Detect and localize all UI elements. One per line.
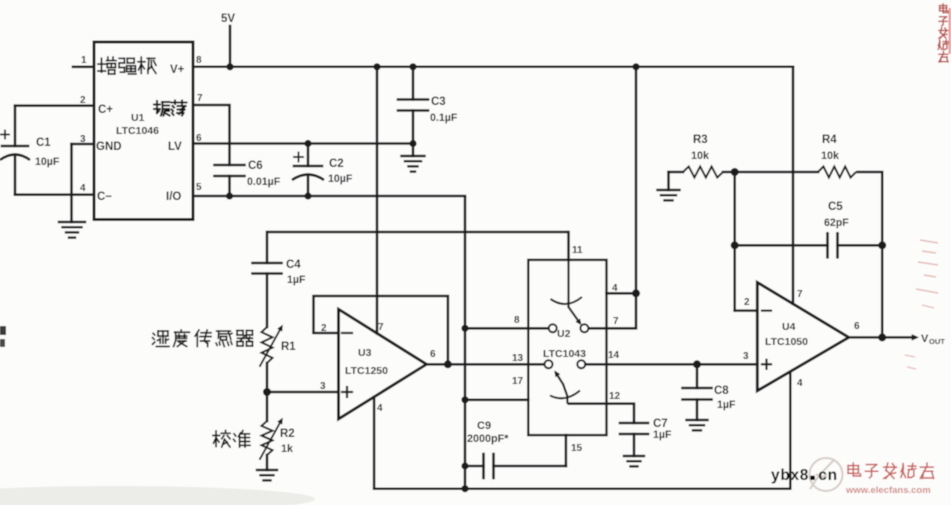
svg-text:4: 4 xyxy=(80,183,86,194)
wire R2 to ground xyxy=(266,455,269,470)
U4 plus sign xyxy=(762,363,771,365)
wire C8 top lead xyxy=(696,364,699,388)
wire C3 top lead xyxy=(412,67,415,100)
svg-text:10k: 10k xyxy=(821,150,840,162)
node R1/R2/U3+ junction xyxy=(263,388,271,396)
svg-text:LV: LV xyxy=(168,141,182,153)
svg-text:C4: C4 xyxy=(286,259,301,271)
capacitor C7 (1uF) xyxy=(620,422,648,425)
wire R3 gnd drop xyxy=(667,172,670,190)
resistor R2 (1k) xyxy=(262,421,273,455)
wire U3 pin3 row xyxy=(267,391,339,394)
wire U1 pin4 to C1 net xyxy=(15,193,94,196)
ground C8 xyxy=(687,419,708,421)
node C8 tap xyxy=(693,360,701,368)
svg-text:ybx8: ybx8 xyxy=(771,467,809,484)
capacitor C9 (2000pF) xyxy=(482,454,485,478)
wire U2 pin14 row to U4 xyxy=(585,363,757,366)
svg-text:7: 7 xyxy=(378,322,384,333)
wire R1 to node xyxy=(266,363,269,392)
wire U1 pin7 OSC stub xyxy=(193,105,230,144)
op-amp U3 triangle xyxy=(339,309,427,419)
svg-text:1µF: 1µF xyxy=(287,274,306,286)
svg-text:7: 7 xyxy=(197,93,203,104)
wire 5V drop xyxy=(229,26,232,67)
wire pin11 drop xyxy=(567,232,570,260)
wire C1 bottom lead xyxy=(14,157,17,195)
wire R3-R4 link xyxy=(723,171,818,174)
capacitor C5 (62pF) xyxy=(826,233,829,257)
svg-text:R4: R4 xyxy=(822,134,837,146)
op-amp U4 triangle xyxy=(757,282,849,390)
node U4 output/feedback junction xyxy=(878,333,886,341)
U1 label 增强极 xyxy=(98,57,116,74)
ground U1 pin3 xyxy=(59,221,85,223)
svg-text:R2: R2 xyxy=(280,428,295,440)
R1 arrow xyxy=(260,327,282,366)
node R3/R4 junction xyxy=(731,168,739,176)
svg-text:62pF: 62pF xyxy=(824,217,849,229)
svg-text:OUT: OUT xyxy=(929,337,945,346)
svg-text:V+: V+ xyxy=(170,64,185,76)
svg-text:LTC1250: LTC1250 xyxy=(345,365,388,377)
wire U4 pin2 stub xyxy=(735,309,758,312)
wire C6 bottom lead xyxy=(228,176,231,196)
node U2 pin4/7 junction xyxy=(632,289,640,297)
svg-text:10k: 10k xyxy=(691,150,710,162)
wire R3 ground riser xyxy=(669,171,684,174)
watermark top-right red column xyxy=(940,4,948,13)
C2 plus sign xyxy=(294,156,303,158)
U4 minus sign xyxy=(762,310,771,312)
svg-text:11: 11 xyxy=(572,245,583,256)
svg-text:14: 14 xyxy=(608,350,620,361)
U2 lower switch arm xyxy=(563,384,568,404)
wire C8 ground lead xyxy=(696,400,699,421)
wire U2 pin4 stub xyxy=(607,292,637,295)
resistor R1 (humidity sensor) xyxy=(262,327,273,363)
ground C7 xyxy=(624,455,644,457)
wire U2 pin12 row xyxy=(568,404,635,422)
U2 upper switch arm xyxy=(567,260,569,307)
node U2 V+ rail junction xyxy=(632,63,639,70)
wire U1 pin2 to C1 net xyxy=(15,104,94,107)
svg-text:0.01µF: 0.01µF xyxy=(247,176,281,188)
svg-text:7: 7 xyxy=(613,316,619,327)
svg-text:C5: C5 xyxy=(828,201,843,213)
capacitor C3 (0.1uF) xyxy=(398,98,428,101)
wire C2 bottom lead xyxy=(307,177,310,196)
U2 lower switch arc xyxy=(550,391,580,399)
wire I/O to switch column xyxy=(464,196,467,489)
svg-text:8: 8 xyxy=(514,315,520,326)
svg-text:6: 6 xyxy=(854,321,860,332)
ground C3 xyxy=(402,155,425,157)
wire bottom rail xyxy=(374,371,790,488)
svg-text:www.elecfans.com: www.elecfans.com xyxy=(845,485,931,496)
svg-text:C−: C− xyxy=(97,191,112,203)
capacitor C8 (1uF) xyxy=(683,387,712,390)
wire C5 left lead xyxy=(735,244,828,247)
svg-text:2000pF*: 2000pF* xyxy=(467,433,509,445)
wire U1 GND drop xyxy=(70,144,73,222)
node C6/I-O junction xyxy=(226,192,233,199)
svg-text:10µF: 10µF xyxy=(35,156,60,168)
R2 arrow xyxy=(260,420,282,459)
wire U4 output xyxy=(849,336,915,339)
node pin17 tap xyxy=(461,396,468,403)
wire C1 top lead xyxy=(14,106,17,146)
wire U1 pin5 I/O row xyxy=(193,195,465,198)
svg-text:C6: C6 xyxy=(248,160,263,172)
scan smudge bottom-left xyxy=(0,486,315,505)
svg-text:1µF: 1µF xyxy=(653,429,672,441)
svg-text:C1: C1 xyxy=(36,137,51,149)
svg-text:15: 15 xyxy=(571,443,583,454)
IC U2 LTC1043 box xyxy=(528,260,606,435)
svg-text:7: 7 xyxy=(797,289,803,300)
svg-text:C8: C8 xyxy=(714,385,729,397)
svg-text:R1: R1 xyxy=(281,341,296,353)
svg-text:6: 6 xyxy=(430,349,436,360)
node 5V junction xyxy=(226,63,233,70)
wire C7 ground lead xyxy=(633,434,636,456)
watermark top-right partial column xyxy=(949,8,951,54)
svg-text:V: V xyxy=(921,333,929,345)
svg-text:4: 4 xyxy=(612,283,618,294)
wire U1 pin3 GND stub xyxy=(72,143,95,146)
svg-text:12: 12 xyxy=(609,391,621,402)
node C5 left junction xyxy=(731,241,739,249)
svg-text:U1: U1 xyxy=(131,112,145,124)
watermark mid-right faint marks xyxy=(905,240,938,369)
svg-text:0.1µF: 0.1µF xyxy=(430,112,458,124)
node C5 right junction xyxy=(878,241,886,249)
svg-text:U3: U3 xyxy=(358,347,372,359)
node C2 bottom junction xyxy=(304,192,311,199)
wire C7 top lead xyxy=(633,422,636,423)
svg-text:4: 4 xyxy=(797,378,803,389)
U2 pin 13 contact xyxy=(545,360,553,368)
node C2 top junction xyxy=(304,140,311,147)
wire U1 pin1 stub xyxy=(73,66,94,69)
svg-text:5: 5 xyxy=(196,182,202,193)
svg-text:I/O: I/O xyxy=(166,191,181,203)
U2 pin 7 contact xyxy=(580,324,588,332)
wire C6 top lead xyxy=(228,144,231,166)
svg-text:U4: U4 xyxy=(782,321,796,333)
svg-text:U2: U2 xyxy=(557,328,571,340)
svg-text:10µF: 10µF xyxy=(328,173,353,185)
svg-text:LTC1043: LTC1043 xyxy=(543,348,586,360)
svg-text:1: 1 xyxy=(81,55,87,66)
wire V+ rail xyxy=(193,66,793,69)
svg-text:C9: C9 xyxy=(477,420,491,432)
svg-text:R3: R3 xyxy=(693,134,708,146)
svg-text:LTC1046: LTC1046 xyxy=(116,125,159,137)
wire C4-pin11 link xyxy=(267,231,569,234)
wire U3 pin4 drop xyxy=(373,397,376,489)
capacitor C6 (0.01uF) xyxy=(215,164,245,167)
wire feedback left drop xyxy=(733,172,736,311)
wire C4 top lead xyxy=(266,232,269,263)
wire C4 to R1 xyxy=(266,274,269,328)
svg-text:3: 3 xyxy=(320,381,326,392)
svg-text:2: 2 xyxy=(80,95,86,106)
svg-text:4: 4 xyxy=(377,403,383,414)
wire U2 pin17 row xyxy=(465,399,528,402)
svg-text:C2: C2 xyxy=(329,158,344,170)
svg-text:1µF: 1µF xyxy=(717,399,736,411)
U4 output arrowhead xyxy=(912,334,919,341)
svg-text:C3: C3 xyxy=(431,96,446,108)
svg-text:GND: GND xyxy=(96,141,122,153)
U3 plus sign xyxy=(342,391,352,393)
wire C5 right lead xyxy=(838,244,883,247)
wire C9 right lead xyxy=(494,465,566,468)
node U3 feedback/output junction xyxy=(444,360,452,368)
wire U2 pin8 row xyxy=(465,327,548,330)
capacitor C4 (1uF) xyxy=(253,262,282,265)
U3 minus sign xyxy=(342,332,352,334)
svg-text:13: 13 xyxy=(512,353,524,364)
wire U2 pin15 drop xyxy=(565,435,568,466)
U2 upper switch arc xyxy=(551,297,583,304)
wire R4 right drop xyxy=(856,172,882,337)
node C3/LV junction xyxy=(409,140,416,147)
watermark logo circle xyxy=(810,458,843,491)
resistor R3 (10k) xyxy=(683,167,723,178)
svg-text:8: 8 xyxy=(196,55,202,66)
wire U4 supply drop xyxy=(792,67,795,304)
label 湿度传感器 xyxy=(153,331,169,346)
svg-text:1k: 1k xyxy=(281,443,294,455)
scan smudge left edge marks xyxy=(0,326,6,335)
svg-text:2: 2 xyxy=(744,297,750,308)
node bottom rail tap xyxy=(461,485,468,492)
resistor R4 (10k) xyxy=(818,167,856,178)
capacitor C1 (10uF electrolytic) xyxy=(2,145,28,148)
U1 label 振荡 xyxy=(154,101,170,116)
U2 pin 8 contact xyxy=(549,324,557,332)
wire C2 top lead xyxy=(307,144,310,167)
node C9 tap xyxy=(461,462,468,469)
node U3 supply rail junction xyxy=(373,63,380,70)
C1 plus sign xyxy=(1,134,9,136)
svg-text:cn: cn xyxy=(818,467,838,484)
node pin8 tap xyxy=(461,325,468,332)
svg-text:5V: 5V xyxy=(221,13,235,25)
watermark 电子发烧友 red xyxy=(848,463,860,476)
wire U2 pin7 to V+ drop xyxy=(588,67,636,329)
svg-text:3: 3 xyxy=(743,351,749,362)
wire node to R2 xyxy=(266,392,269,421)
svg-text:C+: C+ xyxy=(98,104,113,116)
label 校准 xyxy=(213,431,230,447)
capacitor C2 (10uF electrolytic) xyxy=(294,165,322,168)
wire U3 feedback loop xyxy=(314,296,448,364)
wire C3 ground drop xyxy=(412,144,415,157)
U2 pin 14 contact xyxy=(577,360,585,368)
wire U3 pin2 stub xyxy=(314,332,339,335)
svg-text:17: 17 xyxy=(512,376,524,387)
ground R2 xyxy=(257,469,277,471)
wire C9 left lead xyxy=(465,465,484,468)
wire U1 pin6 LV row xyxy=(193,142,413,145)
wire C3 bottom lead xyxy=(412,111,415,144)
wire U3 output row xyxy=(427,363,545,366)
ground R3 xyxy=(658,189,680,191)
IC U1 LTC1046 box xyxy=(94,42,193,220)
node C3 rail junction xyxy=(409,63,416,70)
svg-text:LTC1050: LTC1050 xyxy=(765,336,808,348)
wire U3 supply drop xyxy=(376,67,379,334)
